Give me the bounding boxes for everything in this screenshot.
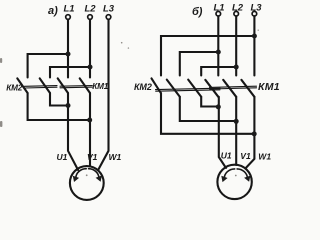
svg-text:W1: W1 (258, 151, 271, 161)
svg-text:L1: L1 (64, 4, 75, 15)
svg-text:U1: U1 (57, 152, 68, 162)
svg-text:а): а) (48, 5, 58, 17)
svg-text:V1: V1 (240, 151, 251, 161)
svg-text:L3: L3 (251, 3, 263, 14)
svg-text:КМ1: КМ1 (258, 81, 280, 93)
svg-text:L1: L1 (214, 3, 225, 14)
svg-text:КМ2: КМ2 (6, 83, 22, 92)
svg-text:КМ2: КМ2 (134, 82, 152, 92)
svg-text:U1: U1 (221, 150, 232, 160)
svg-text:L2: L2 (232, 3, 244, 14)
svg-text:L2: L2 (85, 4, 97, 15)
svg-text:V1: V1 (87, 152, 98, 162)
svg-text:б): б) (192, 6, 203, 18)
svg-text:L3: L3 (103, 4, 115, 15)
svg-text:W1: W1 (109, 152, 122, 162)
svg-text:КМ1: КМ1 (92, 82, 108, 91)
